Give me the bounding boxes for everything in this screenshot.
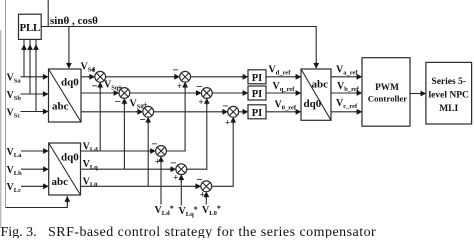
svg-text:VS0: VS0 <box>130 98 144 110</box>
summer J2 <box>119 88 130 99</box>
svg-text:Vc_ref: Vc_ref <box>336 98 358 110</box>
summer J3 <box>143 106 154 117</box>
summer JL0 <box>201 181 212 192</box>
summer J2' <box>201 88 212 99</box>
wire: Ld error up into J1' <box>166 84 185 152</box>
wire: Vsb input <box>21 39 43 94</box>
left edge scan band <box>0 30 1 228</box>
wire: PI3 to inverse block, V0_ref <box>266 111 295 113</box>
summer JLd <box>156 146 167 157</box>
svg-text:VLq: VLq <box>83 159 99 171</box>
wire: Vsq row from block to summer J2 <box>81 92 113 94</box>
svg-text:VLa: VLa <box>7 147 23 159</box>
svg-text:VLd*: VLd* <box>155 204 174 217</box>
wire: feedback Vl0 tap up into J3 <box>147 119 149 187</box>
wire: Va_ref to PWM <box>331 76 356 78</box>
wire: J3 to J3' <box>154 111 222 113</box>
svg-text:PI: PI <box>252 73 263 84</box>
PLL U1 <box>19 14 42 39</box>
wire: feedback Vld tap up into J1 <box>99 84 101 152</box>
wire: Vld row to summer JLd <box>81 150 150 152</box>
svg-text:dq0: dq0 <box>61 77 79 89</box>
wire: PLL output sin/cos bus to abc-dq0 block <box>41 27 316 64</box>
wire: Vla input <box>21 150 43 152</box>
svg-text:dq0: dq0 <box>304 98 322 110</box>
wire: J2 to J2' <box>130 92 195 94</box>
svg-text:VLb: VLb <box>7 165 23 177</box>
wire: J3' to PI3 <box>239 111 242 113</box>
wire: stub from top edge joining sin/cos bus <box>47 0 49 27</box>
svg-text:−: − <box>140 114 146 126</box>
summer J1 <box>95 71 106 82</box>
svg-text:+: + <box>173 173 178 183</box>
svg-text:VLd: VLd <box>83 142 99 154</box>
svg-text:+: + <box>199 97 204 107</box>
svg-text:−: − <box>92 81 98 93</box>
wire: PI1 to inverse block, Vd_ref <box>266 76 295 78</box>
transform block U3 abc/dq0 inverse <box>301 69 331 120</box>
svg-text:+: + <box>177 81 182 91</box>
PI controller 2 <box>248 86 266 100</box>
svg-text:−: − <box>115 96 121 108</box>
svg-text:VL0*: VL0* <box>202 204 221 217</box>
svg-text:VSa: VSa <box>7 73 22 85</box>
wire: Vld_ref up into JLd <box>160 158 162 205</box>
transform block U2 dq0/abc source <box>49 69 82 122</box>
svg-text:Vb_ref: Vb_ref <box>337 81 360 93</box>
svg-text:sinθ , cosθ: sinθ , cosθ <box>50 15 98 27</box>
PI controller 1 <box>248 70 266 84</box>
svg-text:VSc: VSc <box>7 107 21 119</box>
svg-text:V0_ref: V0_ref <box>275 100 297 112</box>
svg-text:Vd_ref: Vd_ref <box>269 64 292 76</box>
svg-text:Va_ref: Va_ref <box>336 65 358 77</box>
svg-text:VLc: VLc <box>7 182 22 194</box>
svg-text:SRF-based control strategy for: SRF-based control strategy for the serie… <box>48 225 376 238</box>
wire: Vlc input <box>21 185 43 187</box>
wire: Vsa input <box>21 39 43 76</box>
wire: Vlb input <box>21 168 43 170</box>
wire: Vb_ref to PWM <box>331 92 356 94</box>
wire: Vl0_ref up into JL0 <box>205 193 207 204</box>
svg-text:Controller: Controller <box>368 94 408 104</box>
svg-text:−: − <box>173 65 179 77</box>
svg-text:level NPC: level NPC <box>429 91 470 101</box>
svg-text:abc: abc <box>52 176 69 188</box>
summer J1' <box>180 71 191 82</box>
wire: Vsd row from block to summer J1 <box>81 76 89 78</box>
summer JLq <box>176 164 187 175</box>
series MLI U5 <box>426 62 472 124</box>
wire: PI2 to inverse block, Vq_ref <box>266 92 295 94</box>
wire: Vs0 row from block to summer J3 <box>81 111 137 113</box>
svg-text:Fig. 3.: Fig. 3. <box>1 225 37 238</box>
svg-text:PI: PI <box>252 89 263 100</box>
arrowhead into block2 bottom from sin/cos feed <box>64 196 70 203</box>
svg-text:PLL: PLL <box>20 22 41 34</box>
wire: sin/cos feed from top-left edge down <box>5 0 7 208</box>
transform block U6 dq0/abc load <box>49 143 81 195</box>
svg-text:VL0: VL0 <box>83 176 98 188</box>
summer J3' <box>228 106 239 117</box>
PWM controller U4 <box>362 58 410 127</box>
svg-text:MLI: MLI <box>439 104 458 114</box>
svg-text:PI: PI <box>252 108 263 119</box>
svg-text:VLq*: VLq* <box>179 205 198 218</box>
wire: J1 to J1' <box>106 76 174 78</box>
svg-text:VSb: VSb <box>7 90 22 102</box>
svg-text:Vq_ref: Vq_ref <box>273 81 296 93</box>
wire: Vl0 row to summer JL0 <box>81 185 196 187</box>
wire: sin/cos feed along bottom into bottom transform block <box>6 196 68 208</box>
svg-text:abc: abc <box>312 79 329 91</box>
svg-text:+: + <box>225 117 230 127</box>
wire: Vc_ref to PWM <box>331 111 356 113</box>
PI controller 3 <box>248 105 266 119</box>
wire: J1' to PI1 <box>191 76 242 78</box>
wire: Vsc input <box>21 39 43 111</box>
wire: feedback Vlq tap up into J2 <box>123 100 125 170</box>
svg-text:+: + <box>200 190 205 200</box>
wire: J2' to PI2 <box>212 92 242 94</box>
wire: Lq error up into J2' <box>187 100 207 170</box>
svg-text:+: + <box>91 65 96 75</box>
svg-text:Series 5-: Series 5- <box>431 77 466 87</box>
wire: Vlq_ref up into JLq <box>180 176 182 206</box>
wire: sin/cos branch into dq0 block 1 <box>68 27 70 64</box>
wire: Vlq row to summer JLq <box>81 168 171 170</box>
wire: L0 error up into J3' <box>212 119 234 187</box>
svg-text:abc: abc <box>52 101 69 113</box>
svg-text:PWM: PWM <box>375 83 399 93</box>
svg-text:dq0: dq0 <box>61 152 79 164</box>
wire: PWM to MLI <box>410 93 420 95</box>
